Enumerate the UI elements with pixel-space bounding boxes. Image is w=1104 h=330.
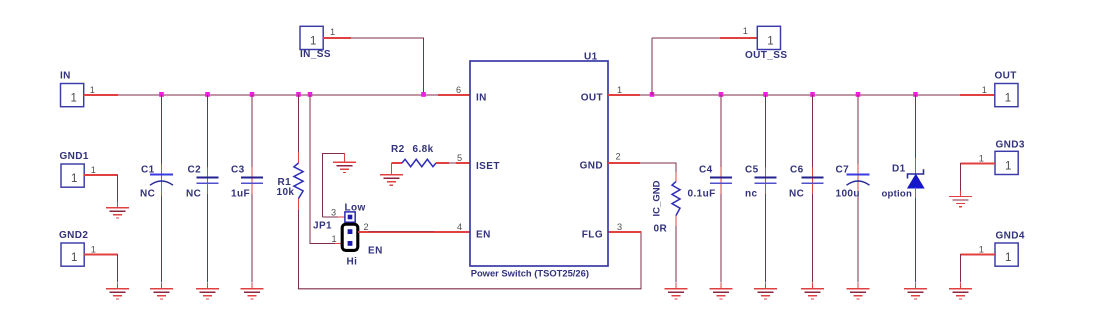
wire GND3 to corner — [961, 163, 996, 165]
wire R1 top red — [298, 152, 300, 163]
wire JP1 pin1 vertical — [309, 95, 311, 244]
svg-text:1: 1 — [982, 85, 988, 95]
resistor R2 — [402, 159, 436, 166]
svg-text:2: 2 — [616, 152, 622, 162]
capacitor C4 — [710, 178, 732, 184]
svg-text:1: 1 — [71, 252, 77, 264]
svg-text:nc: nc — [745, 188, 758, 199]
wire C3 leads — [251, 167, 253, 194]
ground C2 ground — [196, 283, 219, 299]
wire OUT rail — [640, 94, 960, 96]
wire GND net horizontal — [640, 162, 676, 164]
junction OUT rail / C7 — [856, 92, 861, 97]
wire IN_SS vertical — [423, 37, 425, 95]
capacitor C3 — [241, 178, 263, 184]
svg-text:FLG: FLG — [582, 230, 603, 241]
svg-text:100u: 100u — [836, 188, 860, 199]
wire U1 pin1 stub — [608, 94, 640, 96]
port OUT_SS — [745, 26, 787, 61]
ground C6 ground — [801, 283, 824, 299]
junction OUT rail / OUT_SS — [650, 92, 655, 97]
wire D1 top lead — [915, 95, 917, 174]
wire IC_GND top red — [675, 172, 677, 182]
wire GND2 vertical — [117, 254, 119, 283]
svg-text:3: 3 — [617, 222, 623, 232]
svg-text:GND1: GND1 — [60, 151, 89, 162]
wire C3 vertical — [251, 95, 253, 283]
wire R1 top lead — [298, 95, 300, 163]
svg-text:IN: IN — [60, 71, 71, 82]
wire IC_GND bottom red — [675, 216, 677, 227]
svg-text:6: 6 — [456, 85, 462, 95]
port GND3 — [995, 139, 1025, 174]
ground C3 ground — [241, 283, 264, 299]
svg-text:1: 1 — [70, 93, 76, 105]
ground C4 ground — [710, 283, 733, 299]
svg-text:1uF: 1uF — [231, 188, 250, 199]
wire JP1 pin3 to ground — [322, 153, 345, 155]
svg-text:1: 1 — [330, 27, 336, 37]
svg-text:ISET: ISET — [476, 161, 500, 172]
wire OUT_SS vertical — [651, 38, 653, 95]
wire EN stub at JP1 — [358, 231, 470, 233]
resistor IC_GND R — [672, 182, 680, 216]
wire C7 vertical — [857, 95, 859, 283]
wire ISET net — [449, 162, 458, 164]
ground C5 ground — [754, 283, 777, 299]
svg-text:GND4: GND4 — [996, 230, 1025, 241]
svg-text:1: 1 — [90, 85, 96, 95]
wire U1 pin3 stub — [608, 231, 642, 233]
ground R2 ground — [380, 163, 403, 185]
svg-text:C5: C5 — [745, 164, 759, 175]
resistor R1 — [294, 163, 303, 199]
wire R1 bottom lead — [298, 210, 300, 289]
svg-text:NC: NC — [186, 188, 201, 199]
ground D1 ground — [904, 283, 927, 299]
svg-text:1: 1 — [91, 244, 97, 254]
svg-text:10k: 10k — [277, 187, 295, 198]
port OUT — [995, 71, 1019, 107]
capacitor C6 — [802, 178, 824, 184]
port IN_SS — [300, 26, 331, 60]
svg-text:U1: U1 — [584, 51, 598, 62]
wire R2 right red — [436, 162, 449, 164]
wire IC_GND bottom lead — [675, 226, 677, 283]
wire GND4 vertical — [960, 254, 962, 283]
wire JP1 pin3 stub — [338, 216, 345, 218]
wire FLG bottom horizontal — [298, 288, 642, 290]
svg-text:0R: 0R — [654, 223, 668, 234]
port GND4 — [995, 230, 1025, 266]
wire D1 bottom lead — [915, 198, 917, 283]
ground C7 ground — [847, 283, 870, 299]
svg-text:1: 1 — [767, 35, 773, 47]
wire IN port stub — [84, 94, 118, 96]
wire C6 vertical — [812, 95, 814, 283]
wire C2 vertical — [207, 95, 209, 283]
wire R2 left lead — [391, 162, 402, 164]
svg-text:1: 1 — [1005, 160, 1011, 172]
capacitor C7 — [847, 175, 870, 186]
wire OUT_SS horizontal — [652, 37, 720, 39]
wire GND3 vertical — [960, 163, 962, 191]
svg-text:NC: NC — [789, 188, 804, 199]
svg-text:5: 5 — [457, 153, 463, 163]
svg-text:option: option — [882, 188, 913, 199]
wire IN rail — [118, 94, 440, 96]
junction OUT rail / C6 — [810, 92, 815, 97]
wire JP1 pin3 horizontal — [323, 216, 339, 218]
svg-text:C2: C2 — [188, 164, 202, 175]
wire EN net — [368, 231, 434, 233]
ground EN-low ground — [333, 153, 356, 173]
wire U1 pin5 stub — [456, 162, 470, 164]
svg-text:JP1: JP1 — [313, 220, 332, 231]
junction IN rail / C1 — [159, 92, 164, 97]
svg-text:C3: C3 — [231, 164, 245, 175]
wire U1 pin4 stub — [438, 231, 470, 233]
wire GND1 to corner — [84, 174, 117, 176]
svg-text:2: 2 — [364, 222, 370, 232]
ground GND3 ground — [949, 191, 972, 207]
junction OUT rail / D1 — [913, 92, 918, 97]
svg-text:Low: Low — [345, 202, 366, 213]
wire R1 bottom red — [298, 199, 300, 211]
svg-text:IC_GND: IC_GND — [652, 180, 663, 216]
jumper JP1 pin 3 pad — [345, 212, 355, 222]
wire U1 pin6 stub — [438, 94, 470, 96]
port IN — [60, 71, 84, 107]
svg-text:C1: C1 — [141, 164, 155, 175]
svg-text:1: 1 — [1005, 93, 1011, 105]
wire IN_SS horizontal — [351, 37, 424, 39]
wire JP1 pin1 horizontal — [309, 243, 335, 245]
svg-text:0.1uF: 0.1uF — [688, 188, 716, 199]
wire C5 vertical — [765, 95, 767, 283]
ground GND4 ground — [949, 283, 972, 299]
op-amp U1 body — [470, 61, 608, 266]
jumper JP1 shunt — [342, 224, 358, 250]
wire C5 leads — [765, 167, 767, 194]
wire GND1 vertical — [117, 174, 119, 201]
svg-text:1: 1 — [71, 173, 77, 185]
svg-text:1: 1 — [331, 234, 337, 244]
junction IN rail / R1 — [296, 92, 301, 97]
wire C1 vertical — [161, 95, 163, 283]
junction IN rail / C2 — [205, 92, 210, 97]
port GND1 — [60, 151, 89, 187]
diode D1 — [908, 169, 924, 188]
junction IN rail / IN_SS — [421, 92, 426, 97]
svg-text:1: 1 — [91, 165, 97, 175]
svg-text:3: 3 — [331, 207, 337, 217]
svg-text:EN: EN — [476, 230, 491, 241]
wire C1 leads — [161, 164, 163, 196]
svg-text:6.8k: 6.8k — [413, 144, 434, 155]
capacitor C2 — [197, 178, 219, 184]
wire C7 leads — [857, 164, 859, 196]
svg-text:D1: D1 — [892, 164, 906, 175]
junction IN rail / JP1 — [308, 92, 313, 97]
svg-text:1: 1 — [743, 26, 749, 36]
svg-text:GND: GND — [580, 161, 603, 172]
svg-text:EN: EN — [368, 245, 383, 256]
svg-text:1: 1 — [617, 85, 623, 95]
svg-text:Hi: Hi — [347, 257, 358, 268]
svg-text:1: 1 — [979, 153, 985, 163]
wire GND4 to corner — [961, 254, 996, 256]
wire C4 leads — [720, 167, 722, 194]
wire D1 top red — [915, 158, 917, 174]
wire IN_SS stub — [323, 37, 351, 39]
svg-text:C4: C4 — [699, 164, 713, 175]
svg-text:GND3: GND3 — [996, 139, 1025, 150]
ground IC_GND ground — [665, 283, 688, 299]
junction OUT rail / C4 — [719, 92, 724, 97]
wire JP1 pin3 vertical — [322, 154, 324, 218]
port GND2 — [59, 230, 88, 266]
svg-text:4: 4 — [457, 222, 463, 232]
wire U1 pin2 stub — [608, 162, 640, 164]
wire C6 leads — [812, 167, 814, 194]
svg-text:OUT: OUT — [995, 71, 1017, 82]
wire IC_GND top lead — [675, 162, 677, 181]
svg-text:1: 1 — [1005, 252, 1011, 264]
ground GND1 ground — [106, 202, 129, 219]
svg-text:1: 1 — [979, 244, 985, 254]
wire C4 vertical — [720, 95, 722, 283]
ground GND2 ground — [106, 283, 129, 299]
svg-text:1: 1 — [310, 35, 316, 47]
svg-text:IN_SS: IN_SS — [300, 49, 331, 60]
svg-text:OUT: OUT — [581, 93, 603, 104]
ground C1 ground — [150, 283, 173, 299]
capacitor C1 — [150, 175, 173, 186]
svg-text:NC: NC — [140, 188, 155, 199]
svg-text:IN: IN — [476, 93, 487, 104]
capacitor C5 — [755, 178, 777, 184]
wire OUT_SS stub — [720, 37, 757, 39]
wire JP1 pin1 red — [335, 243, 342, 245]
wire D1 bottom red — [915, 188, 917, 210]
svg-text:C6: C6 — [790, 164, 804, 175]
wire C2 leads — [207, 167, 209, 194]
junction IN rail / C3 — [250, 92, 255, 97]
svg-text:GND2: GND2 — [59, 230, 88, 241]
svg-text:R2: R2 — [391, 144, 405, 155]
svg-text:C7: C7 — [836, 164, 850, 175]
wire GND2 to corner — [84, 254, 117, 256]
svg-text:OUT_SS: OUT_SS — [745, 50, 787, 61]
wire FLG vertical — [640, 232, 642, 289]
wire OUT port stub — [960, 94, 995, 96]
junction OUT rail / C5 — [763, 92, 768, 97]
svg-text:Power Switch (TSOT25/26): Power Switch (TSOT25/26) — [471, 268, 589, 279]
